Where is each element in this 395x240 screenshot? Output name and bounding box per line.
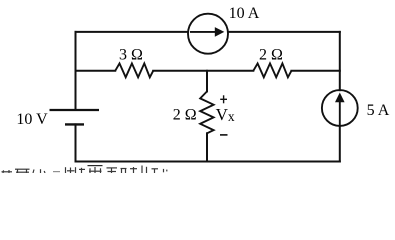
- wire left vertical upper: [75, 32, 77, 110]
- wire right vertical lower: [339, 126, 341, 162]
- svg-text:2 Ω: 2 Ω: [173, 107, 197, 124]
- wire left vertical lower: [75, 124, 77, 161]
- wire middle branch upper: [206, 71, 208, 92]
- resistor R1 3ohm zigzag: [115, 63, 153, 77]
- svg-text:3 Ω: 3 Ω: [119, 47, 143, 64]
- wire middle center: [153, 70, 253, 72]
- battery V1 long plate: [50, 109, 100, 111]
- label minus sign: [220, 134, 228, 136]
- svg-text:Vx: Vx: [216, 105, 235, 124]
- svg-text:10 V: 10 V: [16, 111, 48, 128]
- label plus sign: [220, 95, 227, 103]
- clipped caption text strokes: [2, 166, 167, 174]
- wire middle branch lower: [206, 133, 208, 161]
- current source I2 arrow: [335, 93, 345, 126]
- wire top-right segment: [228, 31, 340, 33]
- svg-text:2 Ω: 2 Ω: [259, 47, 283, 64]
- current source I2 5A circle: [322, 90, 358, 126]
- wire right vertical upper: [339, 32, 341, 90]
- battery V1 short plate: [65, 123, 84, 125]
- wire top-left segment: [76, 31, 189, 33]
- wire middle right: [291, 70, 339, 72]
- wire middle left: [76, 70, 116, 72]
- wire bottom: [76, 161, 340, 163]
- current source I1 arrow: [190, 27, 224, 37]
- current source I1 10A circle: [188, 14, 228, 54]
- svg-text:10 A: 10 A: [229, 5, 260, 22]
- resistor R2 2ohm horizontal zigzag: [253, 63, 291, 77]
- resistor R3 2ohm vertical zigzag Vx: [200, 91, 213, 133]
- svg-text:5 A: 5 A: [367, 102, 390, 119]
